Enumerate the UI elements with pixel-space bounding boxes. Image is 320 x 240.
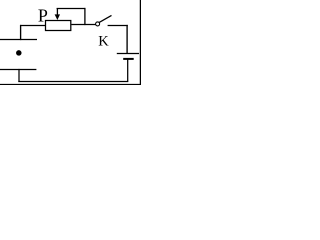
svg-text:K: K — [98, 34, 109, 50]
svg-text:P: P — [38, 6, 48, 26]
